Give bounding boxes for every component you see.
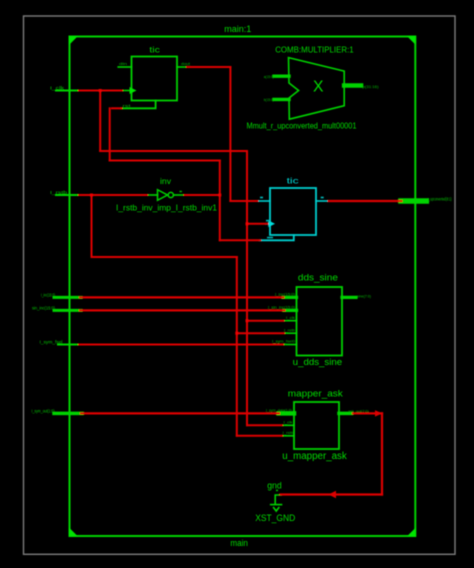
dds pin rst stub <box>284 332 297 334</box>
junction at rstb drop <box>90 194 93 197</box>
U2 pin din label <box>260 197 263 199</box>
wire rstb main vertical x236.8 <box>236 257 238 436</box>
svg-text:u_dds_sine: u_dds_sine <box>293 357 343 367</box>
mapper pin rstb stub <box>282 435 295 437</box>
inverter bubble <box>168 192 173 197</box>
svg-text:main:1: main:1 <box>224 24 251 34</box>
svg-text:p(31:16): p(31:16) <box>363 85 379 89</box>
svg-text:rst: rst <box>123 104 131 108</box>
net clk wires <box>79 91 284 426</box>
port I_sym_fsel stub <box>58 344 80 346</box>
svg-text:I_sym_out(1:0): I_sym_out(1:0) <box>32 408 55 413</box>
svg-text:u_mapper_ask: u_mapper_ask <box>282 451 347 462</box>
svg-text:dds_sine: dds_sine <box>298 272 338 282</box>
wire clk main vertical x247 <box>246 151 248 425</box>
svg-text:XST_GND: XST_GND <box>255 513 295 524</box>
net I_inc bus wire <box>80 296 284 298</box>
U2 pin clk arrow <box>265 220 275 227</box>
wire rstb branch to mapper rstb <box>237 435 282 437</box>
svg-text:I_rstb: I_rstb <box>50 190 68 195</box>
svg-text:I_clk: I_clk <box>50 86 65 91</box>
instance U2 tic (cyan) box <box>270 188 316 235</box>
net I_sym_fsel wire <box>79 344 283 346</box>
inverter output line <box>174 194 185 196</box>
U2 pin dout label <box>321 197 324 199</box>
wire rstb port to inverter <box>79 194 147 196</box>
U2 pin rst loop <box>260 235 294 240</box>
svg-text:I_clk: I_clk <box>283 421 292 425</box>
inverter I_rstb_inv input line <box>147 194 158 196</box>
wire ask_out horizontal to corner <box>353 412 382 414</box>
svg-text:a(15:0): a(15:0) <box>264 75 274 79</box>
wire t1_dout vertical x230.4 <box>229 67 231 201</box>
svg-text:din: din <box>119 62 127 66</box>
svg-text:I_sym_fsel: I_sym_fsel <box>40 339 63 344</box>
wire U1 dout horizontal <box>187 66 230 68</box>
junction clk U2 branch <box>246 222 249 225</box>
svg-text:tic: tic <box>287 177 299 186</box>
port I_clk stub <box>56 90 80 92</box>
port r_upconverted output bus stub <box>401 198 426 204</box>
wire clk jog horizontal y151 <box>100 150 247 152</box>
svg-text:I_rstb: I_rstb <box>284 328 295 332</box>
svg-text:I_rstb_inv_imp_I_rstb_inv1: I_rstb_inv_imp_I_rstb_inv1 <box>116 204 218 213</box>
wire rstb branch to dds rst <box>237 332 284 334</box>
wire clk branch to dds clk <box>247 320 284 322</box>
main boundary rectangle <box>70 37 416 537</box>
svg-text:X: X <box>313 79 324 96</box>
multiplier pin a stub <box>274 74 289 77</box>
svg-text:Mmult_r_upconverted_mult00001: Mmult_r_upconverted_mult00001 <box>247 121 357 131</box>
dds pin inc bus stub <box>283 296 296 299</box>
svg-text:r_upconverted(8:1): r_upconverted(8:1) <box>428 196 452 201</box>
U1 pin dout stub <box>177 66 188 68</box>
svg-text:I_inc(15:0): I_inc(15:0) <box>275 293 295 297</box>
port I_sym_out bus stub <box>54 412 82 416</box>
junction rstb dds branch <box>235 332 238 335</box>
U2 pin clk label <box>266 220 269 222</box>
instance u_dds_sine box <box>297 287 343 356</box>
svg-text:sine(7:0): sine(7:0) <box>357 294 371 298</box>
net ask_out wires <box>281 413 383 494</box>
wire rstb jog horizontal y259.5 <box>92 256 237 258</box>
port sin_inc bus stub <box>54 309 81 312</box>
mapper pin ask_out bus stub <box>339 412 352 416</box>
junction inverter out <box>218 194 221 197</box>
mapper pin data bus stub <box>279 411 294 416</box>
wire clk vertical drop at x100 <box>99 91 101 152</box>
arrow gnd direction <box>329 491 337 498</box>
wire rstb_inv tail to U1 rst <box>112 107 122 109</box>
svg-text:tic: tic <box>149 46 160 55</box>
U1 pin clk arrow <box>121 87 137 94</box>
svg-text:dout: dout <box>181 62 190 66</box>
port I_inc bus stub <box>54 296 81 299</box>
multiplier Mmult symbol <box>289 58 345 120</box>
U2 pin dout stub <box>316 200 329 202</box>
svg-text:sin_inc(15:0): sin_inc(15:0) <box>32 305 56 310</box>
dds pin sin_inc bus stub <box>284 309 297 312</box>
main boundary corner BL <box>69 528 78 537</box>
svg-text:inv: inv <box>160 177 171 186</box>
wire clk branch to U2 clk <box>247 223 268 225</box>
instance u_mapper_ask box <box>294 402 339 449</box>
net rstb wires <box>79 195 284 436</box>
net sin_inc bus wire <box>80 309 285 311</box>
multiplier pin b stub <box>274 98 289 101</box>
svg-text:I_sin_inc(15:0): I_sin_inc(15:0) <box>268 306 295 310</box>
multiplier pin p output stub <box>344 83 361 88</box>
dds pin fsel stub <box>283 344 297 346</box>
wire ask_out vertical x381 <box>381 413 383 494</box>
dds pin clk stub <box>283 320 297 322</box>
svg-text:main: main <box>230 538 248 548</box>
wire rstb_inv to U2 rst <box>220 239 260 241</box>
U1 pin din stub <box>118 66 131 68</box>
U2 pin din stub <box>257 200 270 202</box>
instance U1 tic (green) box <box>132 57 178 101</box>
svg-text:I_inc(15:0): I_inc(15:0) <box>41 292 55 297</box>
arrow ask_out corner <box>375 410 382 416</box>
svg-text:b(15:0): b(15:0) <box>264 98 274 102</box>
main boundary corner BR <box>407 528 416 537</box>
net rstb_inv wires <box>110 108 261 240</box>
svg-text:mapper_ask: mapper_ask <box>288 388 343 399</box>
junction at clk drop <box>99 89 102 92</box>
wire rstb_inv horizontal y160.5 <box>110 160 220 162</box>
main boundary corner TR <box>407 36 416 45</box>
inverter pin speck <box>180 191 182 192</box>
inverter triangle <box>158 190 168 201</box>
svg-text:I_sym_data(1:0): I_sym_data(1:0) <box>266 409 292 413</box>
U1 pin rst loop <box>121 101 156 109</box>
wire rstb_inv vertical x109.7 <box>109 108 111 160</box>
junction clk dds branch <box>246 319 249 322</box>
wire ask_out to ground <box>281 493 383 495</box>
wire U2 dout to output port <box>329 200 402 202</box>
svg-text:I_rstb: I_rstb <box>282 431 293 435</box>
wire inverter output to v3 <box>185 194 220 196</box>
wire rstb vertical drop at x83 <box>91 195 93 257</box>
wire clk branch to mapper clk <box>247 424 282 426</box>
net r_upconverted wire <box>329 200 402 202</box>
wire clk port to U1 clk <box>79 90 122 92</box>
wire rstb_inv vertical x219.8 <box>219 161 221 241</box>
mapper pin clk stub <box>282 424 295 426</box>
svg-text:I_sym_fsel0: I_sym_fsel0 <box>272 340 295 344</box>
svg-text:I_clk: I_clk <box>286 316 295 320</box>
ground XST_GND symbol <box>271 495 282 511</box>
port I_rstb stub <box>56 194 80 196</box>
svg-text:COMB:MULTIPLIER:1: COMB:MULTIPLIER:1 <box>275 45 354 54</box>
ground pin dot <box>276 490 278 492</box>
net I_sym_out bus wire <box>81 412 279 414</box>
wire t1_dout to U2 din <box>230 200 257 202</box>
dds pin sine output bus stub <box>342 296 356 299</box>
net t1_dout wires <box>187 67 258 201</box>
U2 pin rst label <box>267 237 273 239</box>
main boundary corner TL <box>69 36 78 45</box>
svg-text:gnd: gnd <box>267 481 282 491</box>
